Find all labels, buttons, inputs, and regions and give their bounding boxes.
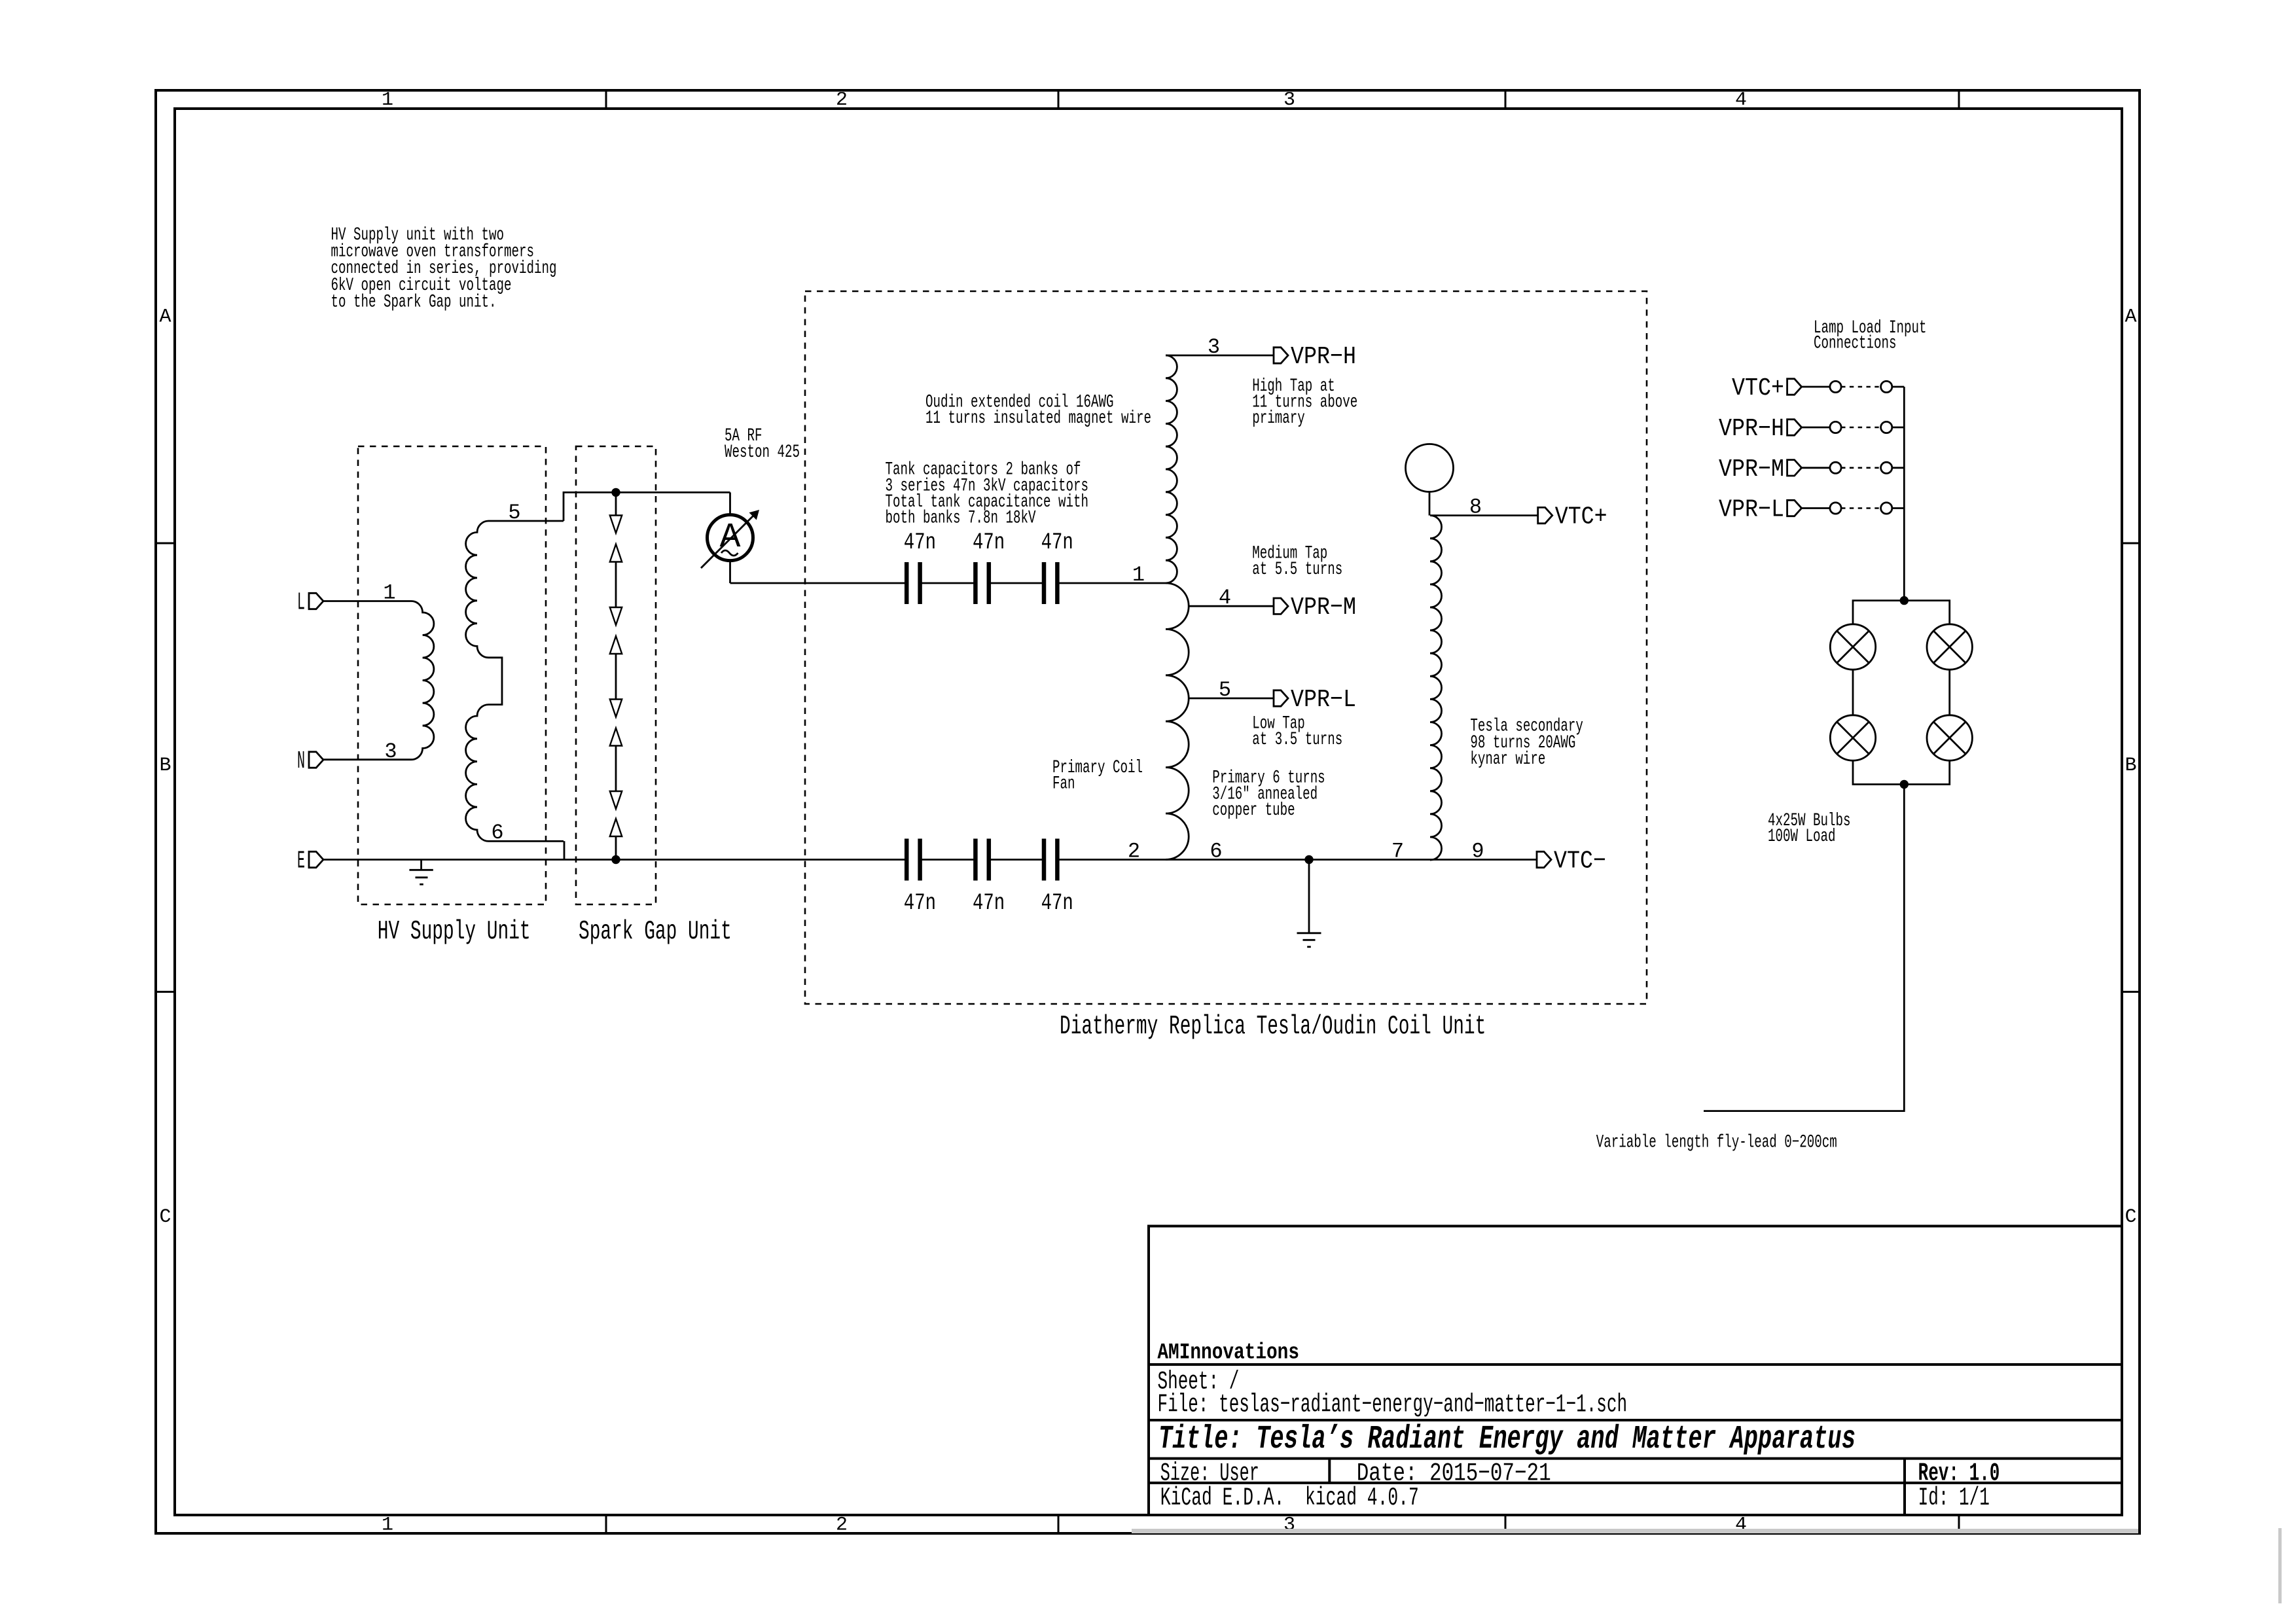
svg-text:47n: 47n xyxy=(1041,890,1073,916)
lamp DS2 xyxy=(1927,624,1972,669)
svg-text:Title: Tesla’s Radiant Energy: Title: Tesla’s Radiant Energy and Matter… xyxy=(1158,1421,1856,1458)
wire C3 to primary pin1 xyxy=(1057,582,1166,584)
svg-text:kynar wire: kynar wire xyxy=(1470,749,1545,770)
svg-text:5: 5 xyxy=(508,501,520,525)
wire fly-lead xyxy=(1704,785,1904,1111)
svg-text:AMInnovations: AMInnovations xyxy=(1157,1340,1299,1365)
svg-text:Fan: Fan xyxy=(1052,774,1075,794)
svg-text:2: 2 xyxy=(1128,840,1140,864)
topload sphere xyxy=(1406,444,1454,492)
wire lamp mid left xyxy=(1852,669,1854,715)
svg-text:C: C xyxy=(2125,1206,2136,1228)
svg-text:E: E xyxy=(297,847,305,876)
svg-text:B: B xyxy=(2125,755,2136,777)
ammeter M1 body xyxy=(708,515,753,561)
ammeter variable arrow xyxy=(701,515,754,568)
svg-text:VPR−L: VPR−L xyxy=(1719,496,1784,524)
capacitor C5 47n xyxy=(973,839,978,881)
svg-text:Id: 1/1: Id: 1/1 xyxy=(1918,1484,1990,1512)
spark gap electrode chain xyxy=(615,492,617,515)
svg-text:VPR−H: VPR−H xyxy=(1291,343,1356,371)
wire tap5 to VPR-L xyxy=(1189,698,1274,700)
svg-text:A: A xyxy=(159,306,171,329)
connector E xyxy=(309,851,323,867)
svg-text:primary: primary xyxy=(1252,408,1305,429)
global label VTC+ xyxy=(1538,507,1552,523)
wire C1-C2 xyxy=(920,582,976,584)
svg-text:1: 1 xyxy=(1132,563,1145,587)
svg-text:1: 1 xyxy=(382,1514,393,1537)
transformer T1 primary winding with L N leads xyxy=(323,601,434,760)
wire row1 ammeter to C1 xyxy=(730,582,907,584)
svg-text:Spark Gap Unit: Spark Gap Unit xyxy=(579,917,732,947)
svg-text:both banks 7.8n 18kV: both banks 7.8n 18kV xyxy=(886,508,1036,529)
Tesla secondary winding xyxy=(1430,516,1442,860)
svg-text:7: 7 xyxy=(1391,840,1404,864)
junction dot spark gap bottom xyxy=(611,855,620,864)
svg-text:3: 3 xyxy=(1208,335,1220,359)
junction dot spark gap top xyxy=(611,488,620,497)
wire bottom bus right xyxy=(1166,859,1430,861)
svg-text:100W Load: 100W Load xyxy=(1768,827,1836,847)
wire tap4 to VPR-M xyxy=(1189,605,1274,607)
page shadow right xyxy=(2278,1528,2282,1603)
svg-text:3: 3 xyxy=(1283,89,1295,111)
svg-text:VPR−H: VPR−H xyxy=(1719,415,1784,443)
svg-text:A: A xyxy=(2125,306,2136,329)
svg-text:5: 5 xyxy=(1219,678,1231,702)
Oudin extended coil upper winding xyxy=(1166,355,1177,583)
svg-text:HV Supply Unit: HV Supply Unit xyxy=(378,917,531,947)
svg-text:to the Spark Gap unit.: to the Spark Gap unit. xyxy=(331,292,497,312)
connector N xyxy=(309,752,323,768)
wire lamp mid right xyxy=(1948,669,1950,715)
capacitor C3 47n xyxy=(1042,562,1047,604)
svg-text:C: C xyxy=(159,1206,171,1228)
svg-text:4: 4 xyxy=(1219,586,1231,610)
frame column tick marks xyxy=(605,90,607,109)
page shadow bottom xyxy=(1132,1529,2138,1533)
capacitor C6 47n xyxy=(1042,839,1047,881)
lamp DS1 xyxy=(1830,624,1875,669)
svg-text:copper tube: copper tube xyxy=(1212,800,1295,821)
ammeter wire bottom xyxy=(729,561,731,583)
wire bottom bus left xyxy=(323,859,905,861)
wire lamp top rail xyxy=(1853,601,1950,624)
transformer T1 secondary winding with taps xyxy=(466,521,564,841)
wire C2-C3 xyxy=(989,582,1044,584)
lamp DS3 xyxy=(1830,715,1875,760)
svg-text:KiCad E.D.A. kicad 4.0.7: KiCad E.D.A. kicad 4.0.7 xyxy=(1160,1484,1419,1512)
svg-text:B: B xyxy=(159,755,171,777)
frame row tick marks xyxy=(156,543,175,544)
svg-text:Diathermy Replica Tesla/Oudin: Diathermy Replica Tesla/Oudin Coil Unit xyxy=(1060,1012,1486,1042)
wire C6 to coil pin2 xyxy=(1057,859,1166,861)
capacitor C2 47n xyxy=(973,562,978,604)
sheet border outer frame xyxy=(156,90,2140,1533)
global label VPR-L xyxy=(1274,690,1288,706)
wire lamp bottom rail xyxy=(1853,760,1950,784)
svg-text:Weston 425: Weston 425 xyxy=(725,442,800,463)
svg-text:6: 6 xyxy=(491,821,503,845)
wire pin3 to VPR-H xyxy=(1166,355,1274,357)
wire 5 step to spark gap xyxy=(564,492,616,521)
svg-text:N: N xyxy=(297,747,305,776)
svg-text:at 3.5 turns: at 3.5 turns xyxy=(1252,730,1342,750)
svg-text:Variable length fly-lead 0−200: Variable length fly-lead 0−200cm xyxy=(1596,1133,1837,1153)
svg-text:47n: 47n xyxy=(973,529,1005,556)
svg-text:1: 1 xyxy=(383,581,395,605)
global label VPR-H xyxy=(1274,348,1288,363)
svg-text:2: 2 xyxy=(836,1514,848,1537)
global label VPR-M xyxy=(1274,598,1288,614)
ground symbol main xyxy=(1308,860,1310,933)
wire C4-C5 xyxy=(920,859,976,861)
svg-text:File: teslas−radiant−energy−an: File: teslas−radiant−energy−and−matter−1… xyxy=(1158,1391,1628,1419)
svg-text:47n: 47n xyxy=(1041,529,1073,556)
wire 6 step to bottom bus xyxy=(564,841,565,859)
junction dot lamp bottom xyxy=(1900,780,1909,789)
svg-text:47n: 47n xyxy=(904,529,936,556)
svg-text:1: 1 xyxy=(382,89,393,111)
connector L xyxy=(309,593,323,609)
svg-text:VTC+: VTC+ xyxy=(1555,503,1607,531)
Spark Gap Unit dashed box xyxy=(576,446,656,904)
svg-text:VTC−: VTC− xyxy=(1554,847,1606,876)
junction dot ground node xyxy=(1304,855,1313,864)
svg-text:11 turns insulated magnet wire: 11 turns insulated magnet wire xyxy=(925,408,1151,429)
HV Supply Unit dashed box xyxy=(358,446,546,904)
capacitor C1 47n xyxy=(905,562,909,604)
svg-text:47n: 47n xyxy=(973,890,1005,916)
ammeter ac tilde xyxy=(721,550,738,556)
wire pin8 to VTC+ xyxy=(1430,514,1538,516)
junction dot lamp top xyxy=(1900,596,1909,605)
wire topload to coil xyxy=(1429,492,1431,516)
global label VTC- xyxy=(1537,851,1551,867)
svg-text:VTC+: VTC+ xyxy=(1732,374,1784,402)
wire top bus to ammeter xyxy=(616,491,730,493)
svg-text:at 5.5 turns: at 5.5 turns xyxy=(1252,560,1342,580)
svg-text:L: L xyxy=(297,589,305,617)
svg-text:VPR−M: VPR−M xyxy=(1719,455,1784,484)
svg-text:Connections: Connections xyxy=(1814,333,1897,353)
wire pin9 to VTC- xyxy=(1430,859,1537,861)
svg-text:VPR−M: VPR−M xyxy=(1291,594,1356,622)
ammeter wire top xyxy=(729,492,731,514)
lamp DS4 xyxy=(1927,715,1972,760)
Oudin primary fan winding xyxy=(1166,583,1189,859)
capacitor C4 47n xyxy=(905,839,909,881)
ground symbol E input xyxy=(420,860,422,870)
svg-text:8: 8 xyxy=(1469,495,1482,520)
svg-text:4: 4 xyxy=(1735,89,1747,111)
wire C5-C6 xyxy=(989,859,1044,861)
svg-text:3: 3 xyxy=(384,740,397,764)
wire lamp bus vertical xyxy=(1903,387,1905,601)
sheet border inner frame xyxy=(175,109,2122,1515)
svg-text:47n: 47n xyxy=(904,890,936,916)
Diathermy unit dashed box xyxy=(805,291,1647,1004)
title block lines xyxy=(1149,1226,2122,1516)
svg-text:2: 2 xyxy=(836,89,848,111)
svg-text:VPR−L: VPR−L xyxy=(1291,686,1356,714)
